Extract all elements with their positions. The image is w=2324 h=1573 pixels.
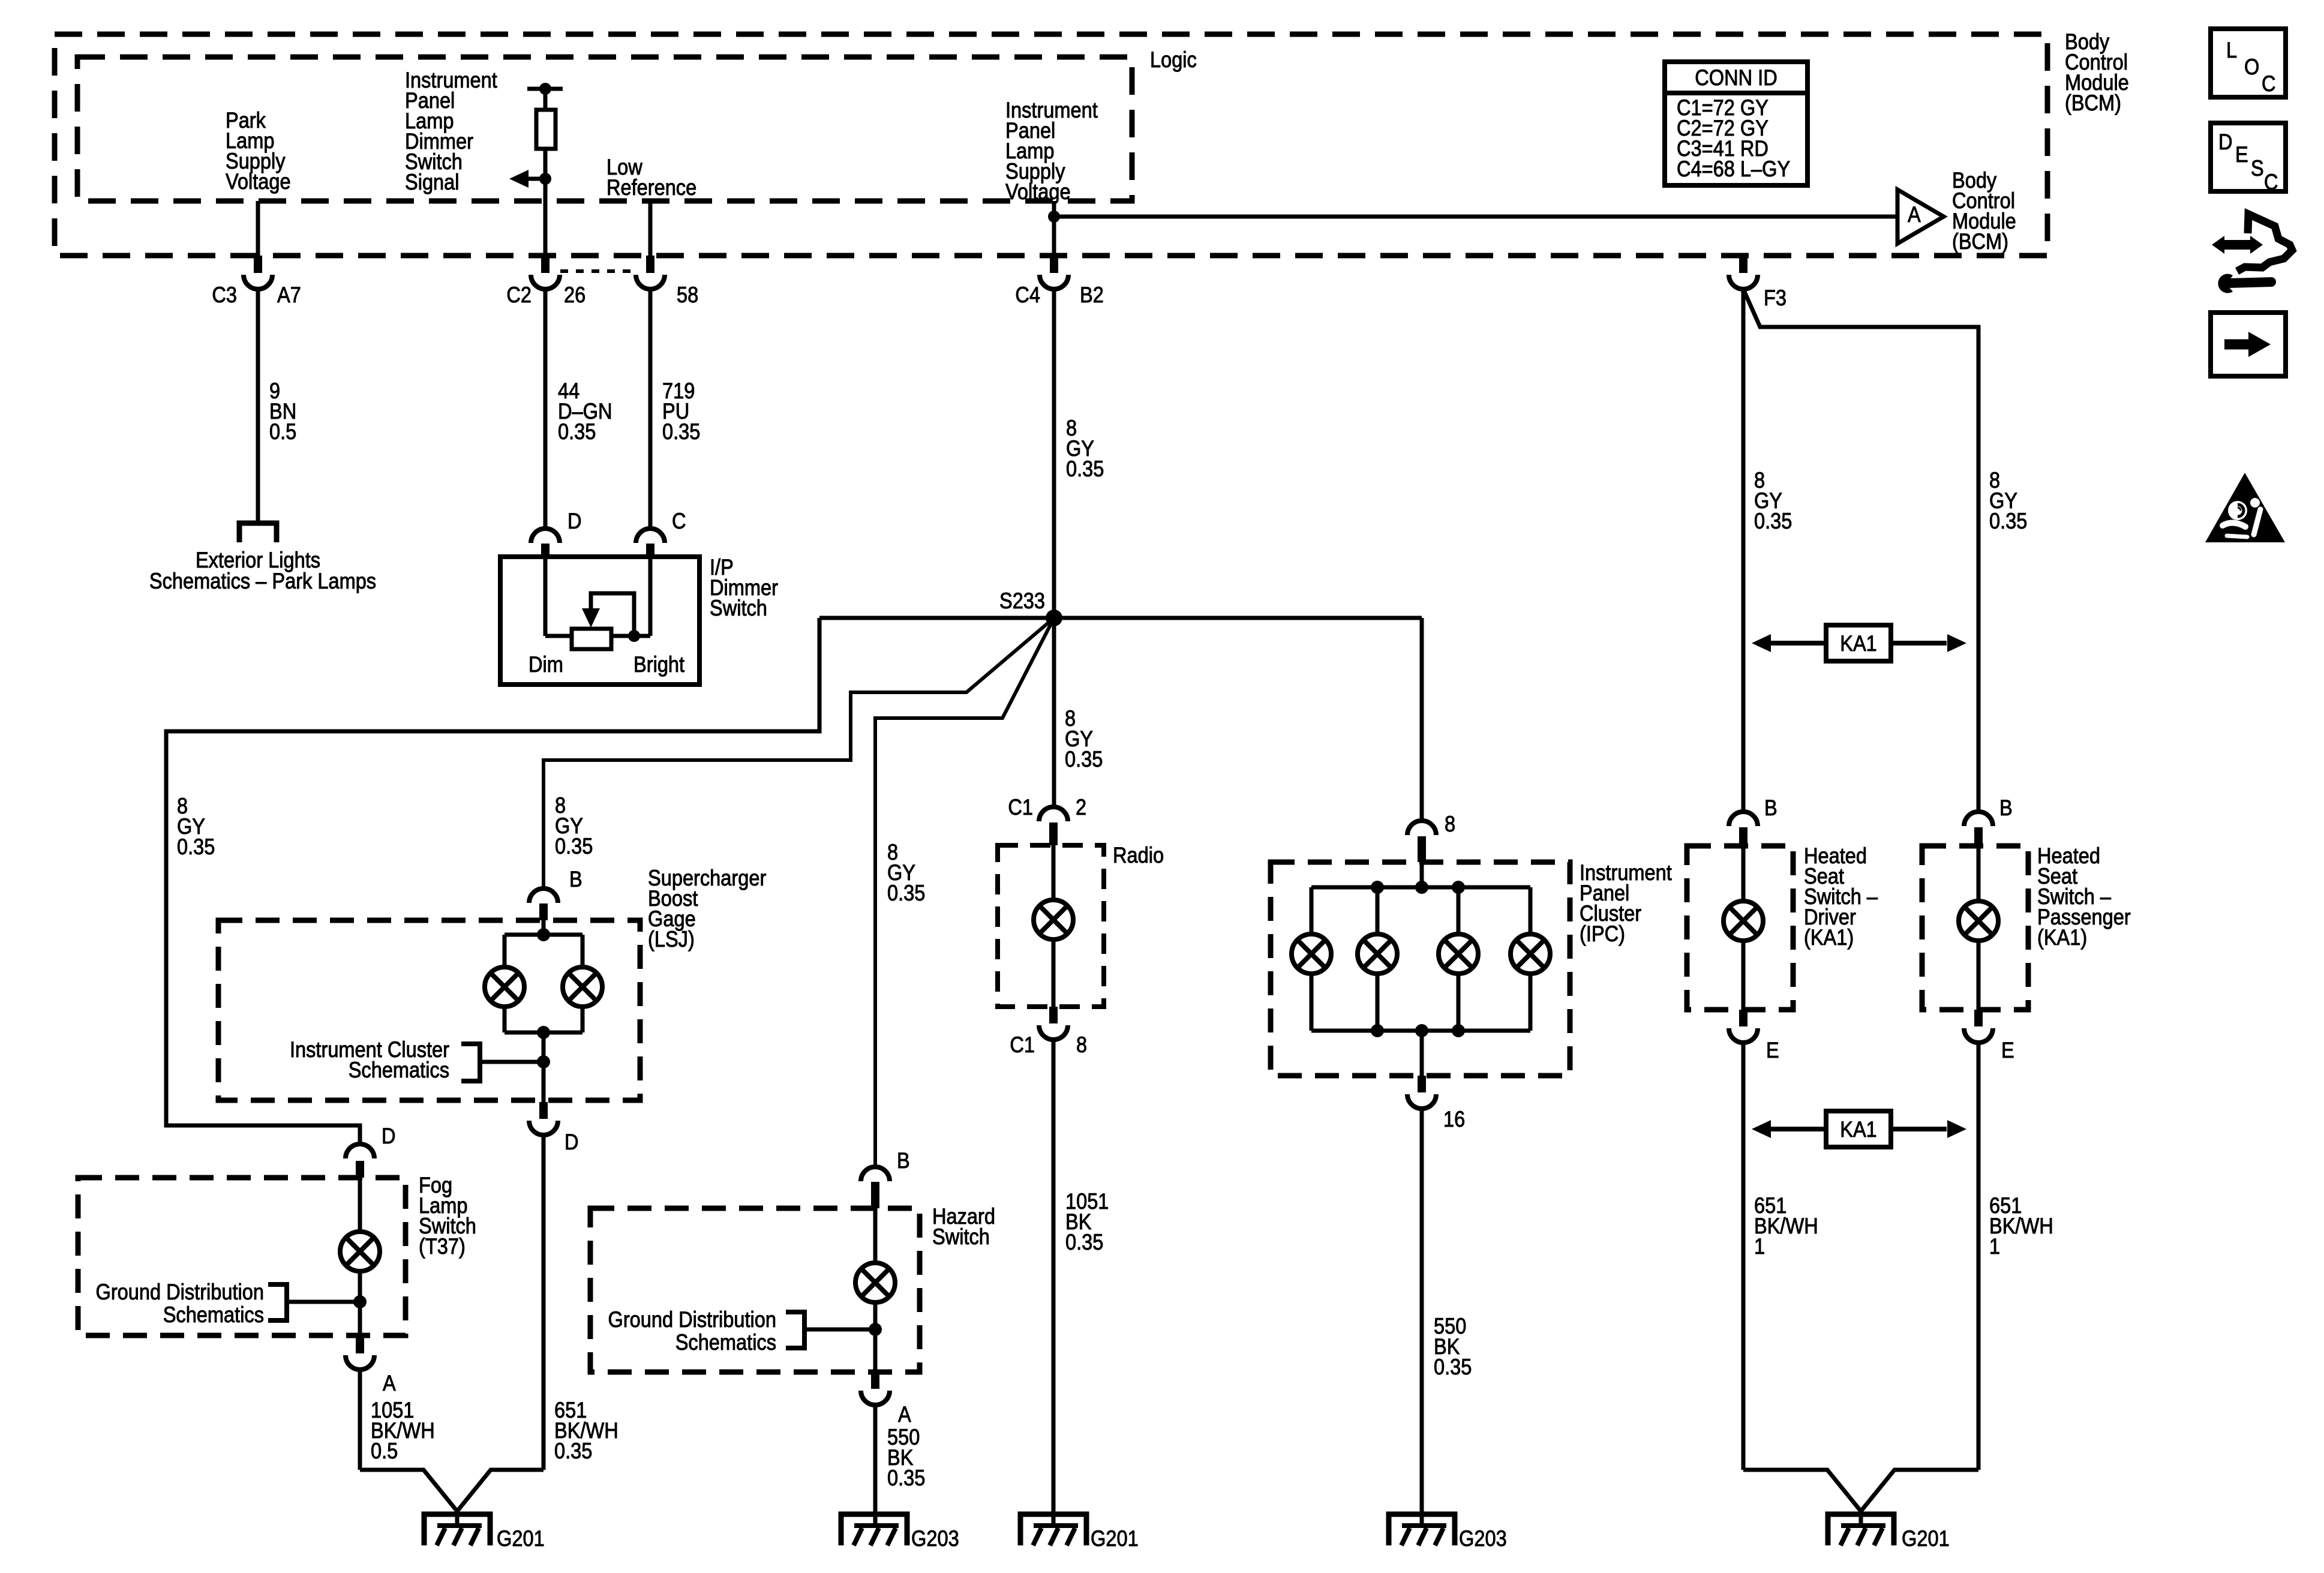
svg-text:(T37): (T37) — [419, 1234, 466, 1259]
svg-text:F3: F3 — [1764, 286, 1786, 310]
svg-text:0.35: 0.35 — [1434, 1355, 1472, 1379]
svg-text:L: L — [2226, 38, 2237, 62]
svg-text:Logic: Logic — [1150, 47, 1197, 72]
svg-text:C4: C4 — [1015, 283, 1040, 307]
svg-text:G201: G201 — [1902, 1526, 1950, 1551]
svg-text:Schematics: Schematics — [163, 1302, 264, 1327]
svg-text:Voltage: Voltage — [226, 169, 291, 194]
svg-text:0.35: 0.35 — [554, 1439, 592, 1463]
svg-text:0.35: 0.35 — [1066, 457, 1104, 481]
svg-text:C2: C2 — [506, 283, 532, 307]
svg-text:D: D — [565, 1130, 579, 1154]
svg-text:C: C — [2262, 71, 2276, 96]
svg-text:D: D — [2218, 130, 2233, 154]
svg-text:0.35: 0.35 — [1754, 509, 1792, 533]
svg-text:0.35: 0.35 — [662, 419, 700, 444]
svg-text:0.35: 0.35 — [887, 881, 925, 905]
svg-text:G203: G203 — [1459, 1526, 1507, 1551]
svg-text:CONN ID: CONN ID — [1695, 65, 1777, 90]
svg-text:Ground Distribution: Ground Distribution — [608, 1307, 777, 1332]
svg-text:8: 8 — [1076, 1032, 1087, 1057]
svg-text:(BCM): (BCM) — [2065, 91, 2121, 115]
svg-text:E: E — [2001, 1038, 2014, 1062]
svg-text:A: A — [1908, 202, 1921, 227]
svg-text:(KA1): (KA1) — [2037, 925, 2087, 950]
svg-text:Signal: Signal — [405, 170, 460, 194]
svg-text:A: A — [383, 1371, 396, 1395]
svg-text:S233: S233 — [999, 589, 1045, 613]
svg-text:(BCM): (BCM) — [1952, 229, 2008, 254]
svg-text:E: E — [1766, 1038, 1779, 1062]
svg-text:Radio: Radio — [1113, 843, 1164, 867]
svg-text:Bright: Bright — [633, 652, 685, 677]
svg-text:0.35: 0.35 — [555, 834, 593, 858]
svg-text:(KA1): (KA1) — [1804, 925, 1854, 950]
svg-text:C4=68 L–GY: C4=68 L–GY — [1677, 157, 1790, 181]
svg-text:0.35: 0.35 — [1989, 509, 2027, 533]
svg-text:58: 58 — [677, 283, 698, 307]
svg-text:Schematics – Park Lamps: Schematics – Park Lamps — [149, 569, 376, 593]
svg-text:KA1: KA1 — [1840, 1117, 1877, 1142]
svg-text:Reference: Reference — [606, 175, 696, 200]
svg-text:D: D — [382, 1124, 396, 1148]
svg-text:0.35: 0.35 — [558, 419, 596, 444]
svg-text:C1: C1 — [1010, 1032, 1035, 1057]
svg-text:0.5: 0.5 — [269, 419, 296, 444]
svg-text:8: 8 — [1445, 812, 1455, 836]
svg-text:A: A — [898, 1402, 911, 1427]
svg-text:0.35: 0.35 — [1065, 747, 1103, 772]
svg-text:B: B — [897, 1148, 910, 1173]
svg-text:Schematics: Schematics — [675, 1330, 776, 1355]
svg-text:B: B — [569, 867, 582, 891]
svg-text:Switch: Switch — [932, 1224, 990, 1249]
svg-text:(IPC): (IPC) — [1580, 921, 1625, 946]
svg-text:0.35: 0.35 — [177, 834, 215, 859]
svg-text:0.5: 0.5 — [371, 1439, 398, 1463]
svg-text:Schematics: Schematics — [349, 1058, 449, 1082]
svg-text:G201: G201 — [1091, 1526, 1139, 1551]
svg-text:C: C — [672, 509, 686, 533]
svg-text:C: C — [2264, 170, 2278, 194]
svg-text:Dim: Dim — [529, 652, 563, 677]
svg-text:D: D — [568, 509, 582, 533]
svg-text:16: 16 — [1443, 1107, 1465, 1131]
svg-text:C3: C3 — [212, 283, 237, 307]
svg-text:0.35: 0.35 — [1065, 1230, 1103, 1254]
svg-text:Ground Distribution: Ground Distribution — [96, 1280, 265, 1304]
svg-text:O: O — [2244, 55, 2259, 79]
svg-text:0.35: 0.35 — [887, 1466, 925, 1490]
svg-text:(LSJ): (LSJ) — [648, 927, 695, 951]
svg-text:G203: G203 — [911, 1526, 959, 1551]
svg-text:B2: B2 — [1080, 283, 1104, 307]
svg-text:Switch: Switch — [710, 596, 767, 620]
svg-text:G201: G201 — [497, 1526, 545, 1551]
svg-text:1: 1 — [1754, 1234, 1765, 1259]
svg-text:B: B — [1764, 795, 1777, 820]
svg-text:2: 2 — [1076, 795, 1086, 819]
svg-text:KA1: KA1 — [1840, 631, 1877, 656]
svg-text:1: 1 — [1989, 1234, 2000, 1259]
svg-text:Voltage: Voltage — [1005, 179, 1071, 204]
svg-text:C1: C1 — [1008, 795, 1033, 819]
svg-text:E: E — [2235, 142, 2248, 167]
svg-text:26: 26 — [564, 283, 585, 307]
svg-text:A7: A7 — [277, 283, 301, 307]
svg-text:S: S — [2251, 156, 2264, 181]
svg-text:B: B — [1999, 795, 2013, 820]
